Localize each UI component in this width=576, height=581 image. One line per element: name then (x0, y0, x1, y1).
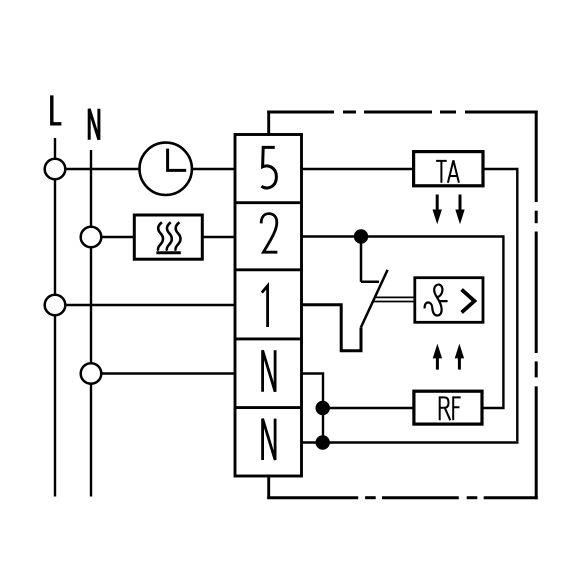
arrow up 2 (455, 344, 464, 370)
wire L rail (54, 138, 56, 497)
label RF (440, 397, 461, 420)
label L (52, 95, 62, 123)
RF box (414, 391, 482, 424)
arrow up 1 (433, 344, 442, 370)
enclosure bottom stub (267, 475, 270, 500)
mechanical link double line (375, 296, 415, 298)
wire clock to terminal 5 (192, 168, 236, 170)
enclosure right dash-dot border (535, 111, 538, 500)
label N (89, 109, 99, 140)
switch moving contact (361, 270, 388, 328)
arrow down 1 (433, 195, 442, 225)
clock timer symbol (140, 143, 192, 195)
wire terminal 2 to right (302, 237, 504, 409)
wire L to terminal 1 (65, 304, 236, 306)
wire dot to RF (323, 407, 414, 409)
TA box (414, 152, 483, 186)
heater element box (134, 215, 202, 259)
label theta (425, 285, 448, 316)
switch contact fixed side (361, 237, 379, 282)
wire L to clock (65, 168, 139, 170)
label TA (436, 160, 459, 182)
label terminal 2 (261, 214, 277, 253)
wire bottom N row (302, 441, 519, 443)
label terminal 5 (261, 147, 276, 188)
wire terminal 5 to TA (302, 168, 414, 170)
junction dot switch (354, 229, 368, 243)
label terminal N lower (263, 419, 276, 460)
terminal circle N rowN (81, 363, 102, 384)
wire heater to terminal 2 (202, 236, 236, 238)
wire N rail (90, 150, 92, 497)
terminal circle L row1 (45, 295, 66, 316)
terminal circle L row5 (45, 159, 66, 180)
label terminal 1 (262, 286, 268, 327)
enclosure top stub (267, 111, 270, 136)
label terminal N upper (263, 350, 276, 391)
terminal circle N row2 (81, 227, 102, 248)
terminal block (235, 135, 302, 477)
label greater-than (462, 290, 475, 313)
sensor box (415, 278, 483, 323)
wire TA to right rail (483, 169, 517, 441)
wire N to heater (101, 236, 135, 238)
junction dot N-RF (316, 401, 330, 415)
enclosure bottom dash-dot border (267, 496, 538, 499)
wire N to terminal N (101, 372, 236, 374)
wire terminal 1 to switch (302, 305, 362, 351)
enclosure top dash-dot border (267, 111, 538, 114)
arrow down 2 (455, 195, 464, 225)
wire terminal N down link (302, 374, 324, 443)
junction dot N-N (316, 435, 330, 449)
